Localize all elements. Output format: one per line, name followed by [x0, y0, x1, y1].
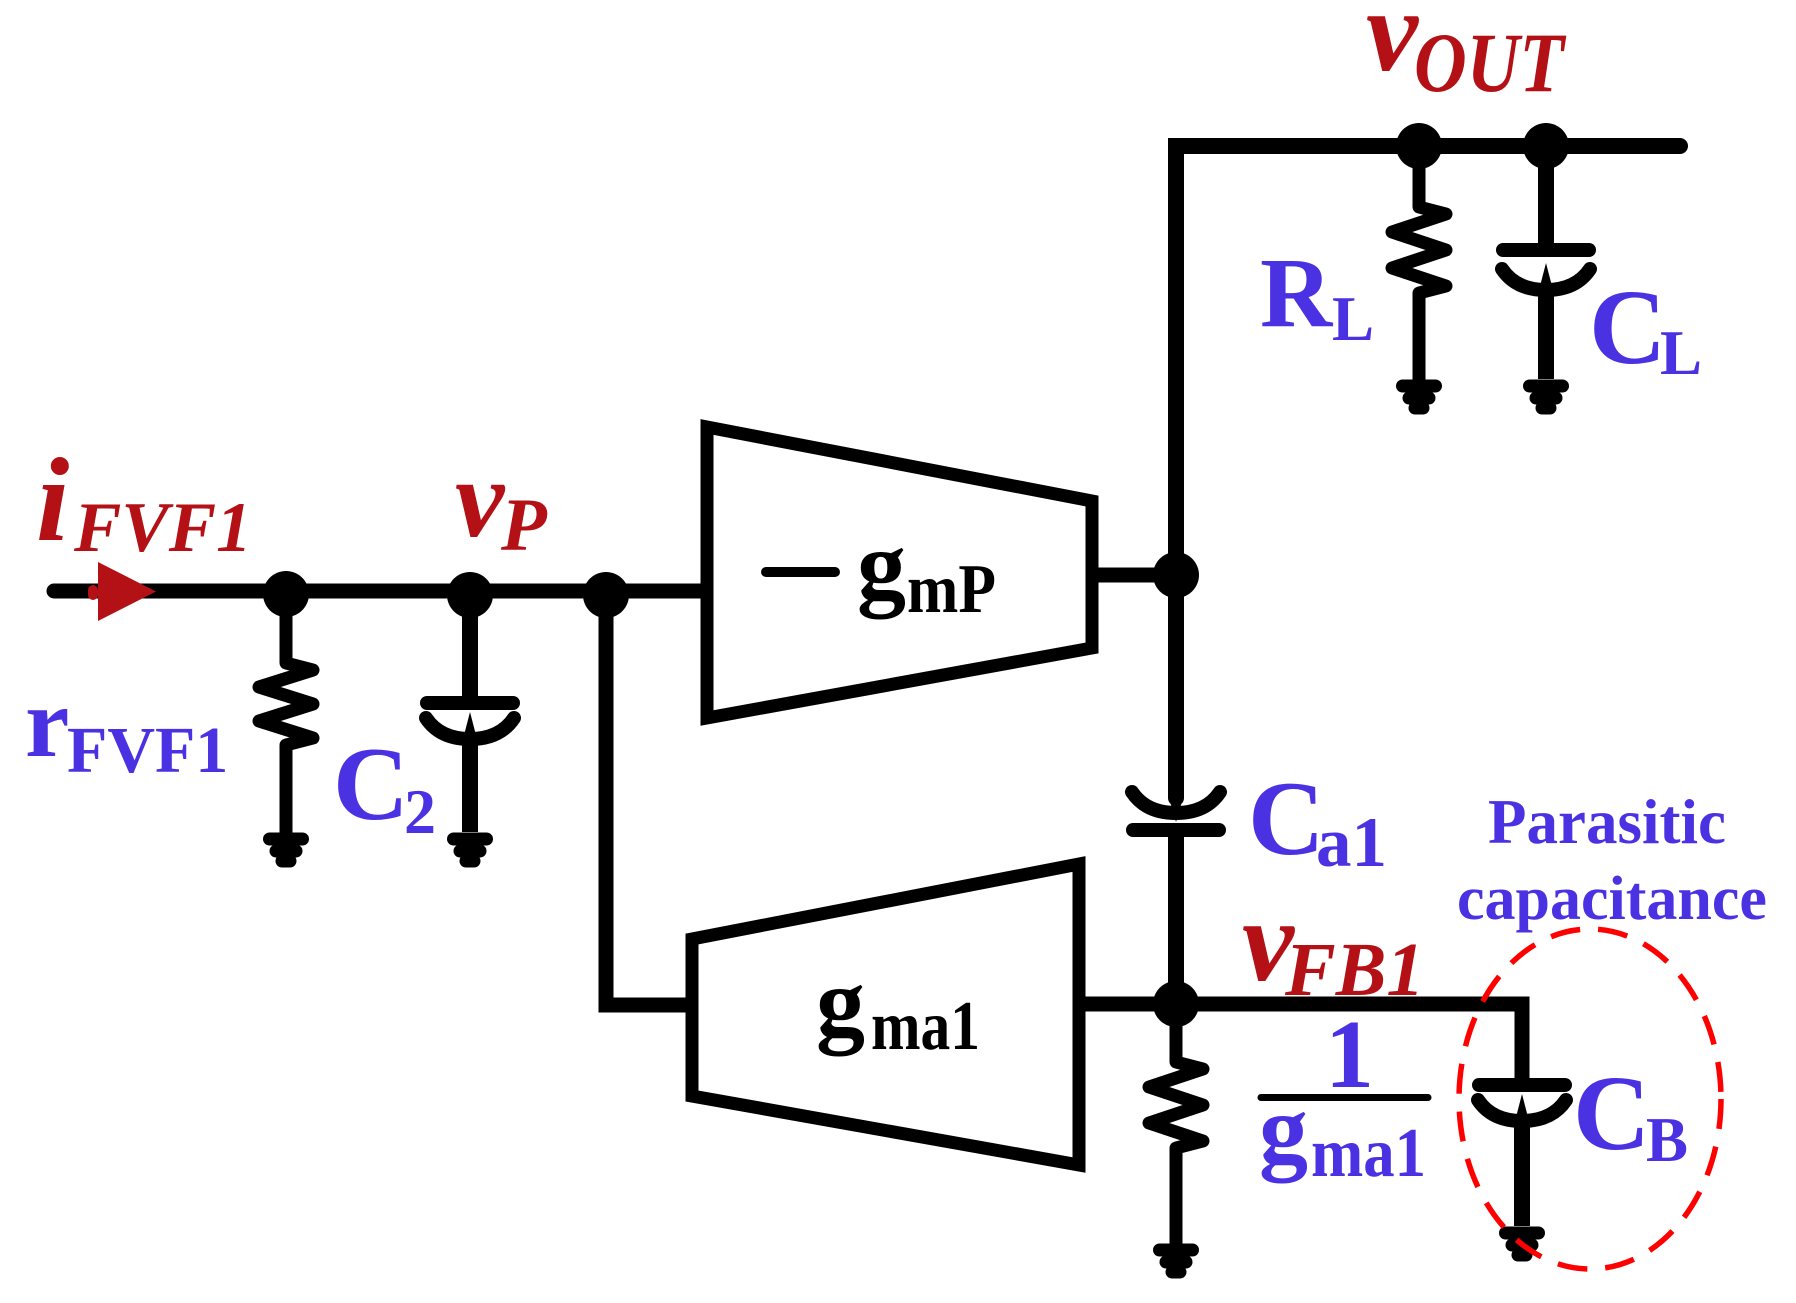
- ground for C_2: [454, 839, 487, 861]
- label i_FVF1: [36, 433, 252, 567]
- label r_FVF1: [25, 667, 228, 787]
- wire branch from node C down and right to g_ma1 input: [606, 591, 692, 1005]
- op-amp U2 (g_ma1 transconductor trapezoid): [692, 864, 1079, 1165]
- resistor R_L: [1392, 146, 1446, 379]
- svg-text:C: C: [1248, 760, 1325, 877]
- svg-text:FVF1: FVF1: [67, 714, 228, 787]
- node junction D (R_L tap on v_OUT rail): [1396, 123, 1442, 169]
- svg-text:v: v: [1366, 0, 1419, 96]
- capacitor C_a1: [1169, 798, 1183, 822]
- svg-text:Parasitic: Parasitic: [1488, 787, 1726, 857]
- label C_2: [333, 725, 436, 847]
- svg-text:g: g: [1259, 1076, 1308, 1184]
- label v_OUT: [1366, 0, 1567, 110]
- capacitor C_2: [426, 591, 514, 832]
- label Parasitic capacitance: [1457, 787, 1767, 933]
- svg-text:C: C: [1589, 269, 1666, 387]
- ground for C_B: [1506, 1233, 1539, 1255]
- node junction E (C_L tap on v_OUT rail): [1523, 123, 1569, 169]
- label v_FB1: [1242, 877, 1424, 1012]
- label 1/g_ma1 fraction: [1259, 1001, 1426, 1192]
- node junction C (branch to g_ma1): [583, 572, 629, 618]
- capacitor C_L: [1502, 146, 1590, 379]
- node junction B (v_P / C_2 tap): [447, 572, 493, 618]
- label C_B: [1573, 1055, 1688, 1175]
- svg-text:a1: a1: [1316, 804, 1387, 882]
- current arrow i_FVF1: [88, 562, 156, 621]
- wire g_mP output stub: [1092, 568, 1176, 583]
- wire v_OUT vertical riser and top rail: [1176, 146, 1680, 798]
- svg-text:mP: mP: [907, 551, 996, 628]
- node junction G (v_FB1 node): [1153, 981, 1199, 1027]
- resistor 1/g_ma1: [1149, 1004, 1203, 1243]
- svg-text:C: C: [1573, 1055, 1650, 1173]
- svg-text:C: C: [333, 725, 409, 842]
- wire v_FB1 to C_B: [1176, 1004, 1522, 1078]
- op-amp U1 (-g_mP transconductor trapezoid): [707, 427, 1092, 718]
- svg-text:L: L: [1660, 318, 1702, 388]
- annotation ellipse (red dashed) around C_B: [1459, 929, 1721, 1269]
- label v_P: [455, 438, 548, 567]
- label g_ma1: [816, 949, 980, 1065]
- svg-text:1: 1: [1325, 1001, 1374, 1109]
- svg-text:r: r: [25, 667, 69, 778]
- node junction A (r_FVF1 tap): [263, 571, 309, 617]
- ground for r_FVF1: [270, 839, 303, 861]
- svg-text:2: 2: [404, 776, 436, 847]
- resistor r_FVF1: [259, 591, 313, 832]
- svg-text:B: B: [1646, 1105, 1688, 1175]
- svg-text:i: i: [36, 433, 69, 566]
- svg-text:OUT: OUT: [1414, 16, 1567, 110]
- svg-text:L: L: [1332, 284, 1374, 354]
- svg-text:capacitance: capacitance: [1457, 865, 1767, 933]
- svg-text:v: v: [455, 438, 506, 561]
- svg-text:g: g: [857, 512, 906, 620]
- svg-text:ma1: ma1: [871, 988, 980, 1065]
- label -g_mP: [766, 512, 996, 628]
- ground for R_L: [1403, 386, 1436, 408]
- ground for 1/g_ma1: [1160, 1250, 1193, 1272]
- label C_a1: [1248, 760, 1387, 882]
- ground for C_L: [1530, 386, 1563, 408]
- label C_L: [1589, 269, 1702, 388]
- svg-text:FVF1: FVF1: [73, 489, 252, 567]
- wire g_ma1 output stub: [1079, 997, 1176, 1012]
- label R_L: [1260, 237, 1374, 354]
- svg-text:ma1: ma1: [1311, 1115, 1426, 1192]
- svg-text:g: g: [816, 949, 865, 1057]
- svg-text:P: P: [500, 484, 548, 567]
- wire main input horizontal (i_FVF1 line): [54, 584, 713, 599]
- svg-text:R: R: [1260, 237, 1334, 348]
- node junction F (g_mP output / v_OUT branch): [1153, 552, 1199, 598]
- capacitor C_B (parasitic): [1478, 1085, 1566, 1226]
- fraction bar: [1261, 1094, 1428, 1101]
